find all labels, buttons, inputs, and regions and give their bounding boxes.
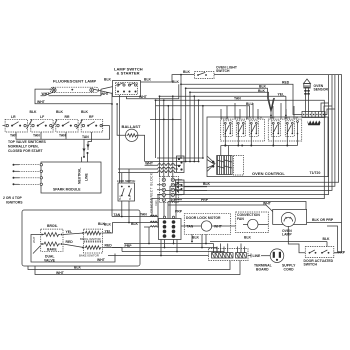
svg-text:BLK: BLK: [323, 237, 331, 241]
broil ignitor E1: [80, 229, 102, 241]
wire valve interconnects: [3, 125, 110, 127]
ignitor electrodes (4x): [13, 164, 43, 166]
svg-text:TAN: TAN: [187, 225, 194, 229]
wire WHT lamp left loop: [35, 89, 112, 104]
lamp switch and starter S1: [113, 67, 143, 97]
svg-text:YEL: YEL: [278, 93, 285, 97]
wire terminal board pin risers: [214, 244, 245, 253]
svg-text:WHT: WHT: [42, 92, 51, 96]
terminal board TB2: [209, 249, 272, 272]
relay bank K1: [221, 116, 265, 141]
caption 2 or 4 top ignitors: [3, 196, 23, 204]
svg-text:BLK: BLK: [244, 236, 252, 240]
top valve switches: LR LF RR RF: [11, 110, 94, 119]
wire WHT above lamp: [168, 202, 306, 210]
wire starter bottom drop: [127, 84, 179, 99]
wire bus y92: [190, 92, 269, 98]
wire ballast right: [138, 135, 145, 161]
wire relay bottoms to rail: [225, 134, 297, 146]
oven light switch S2: [183, 66, 238, 79]
wire lower 2: [112, 248, 217, 253]
wire hops crossing: [118, 161, 181, 172]
relay bank K2: [268, 116, 301, 141]
svg-text:BLK: BLK: [56, 110, 64, 114]
svg-text:WHT: WHT: [139, 95, 148, 99]
svg-text:WHT: WHT: [37, 100, 46, 104]
svg-text:BR: BR: [295, 117, 299, 119]
svg-text:LR: LR: [11, 115, 16, 119]
svg-text:RR: RR: [65, 115, 70, 119]
svg-text:BROIL: BROIL: [47, 224, 58, 228]
dual valve V1: [41, 229, 63, 252]
sensor connector P3: [302, 112, 325, 126]
wire BLK control to left: [184, 186, 207, 188]
wire bus RED y84 to sensor: [181, 84, 302, 114]
wire bake wht: [31, 254, 115, 263]
wire bus TAN y100: [152, 100, 324, 216]
svg-text:CORD: CORD: [284, 268, 295, 272]
wire ballast left: [117, 104, 125, 135]
valve switch LF: [31, 119, 53, 137]
fluorescent lamp FL1: [50, 79, 99, 93]
wire BLK starter to oven light switch: [141, 75, 195, 82]
svg-text:IGNITORS: IGNITORS: [6, 200, 23, 204]
svg-text:SWITCH: SWITCH: [304, 263, 318, 267]
svg-text:SPARK MODULE: SPARK MODULE: [53, 187, 81, 191]
svg-text:PRP: PRP: [175, 209, 183, 213]
wire control funnel to strips: [207, 156, 215, 172]
svg-text:T1/T20: T1/T20: [310, 171, 321, 175]
svg-text:WHT: WHT: [145, 161, 154, 165]
connector P6: [177, 156, 185, 173]
svg-text:BLK OR PRP: BLK OR PRP: [312, 218, 334, 222]
svg-text:BLK: BLK: [74, 266, 82, 270]
node dots lamp feeds: [111, 103, 113, 105]
supply cord P1: [248, 249, 296, 272]
wire lower 4: [108, 255, 209, 257]
wire sensor connector feeds: [321, 103, 329, 112]
nested right border wires: [158, 75, 329, 227]
svg-text:PRP: PRP: [201, 198, 209, 202]
svg-text:BLK: BLK: [172, 80, 180, 84]
wire oven light drop: [180, 75, 182, 85]
svg-text:BAKE: BAKE: [47, 248, 57, 252]
svg-text:SENSOR: SENSOR: [314, 88, 329, 92]
oven control U2: [207, 117, 328, 177]
svg-text:BAKE: BAKE: [284, 116, 291, 119]
door lock connector P5: [159, 216, 182, 239]
svg-text:DOOR LOCK MOTOR: DOOR LOCK MOTOR: [186, 216, 221, 220]
svg-text:WHT: WHT: [97, 258, 106, 262]
svg-text:BLK: BLK: [259, 84, 267, 88]
valve switch RF: [81, 119, 103, 139]
svg-text:RF: RF: [89, 115, 94, 119]
wire PRP lower: [124, 243, 214, 245]
svg-text:TAN: TAN: [235, 116, 240, 119]
svg-text:BLU: BLU: [119, 195, 122, 200]
oven sensor RT1: [304, 79, 329, 97]
svg-text:BOARD: BOARD: [256, 268, 269, 272]
valve switch RR: [56, 119, 78, 137]
svg-text:BLK: BLK: [129, 195, 132, 200]
svg-text:SWITCH: SWITCH: [216, 69, 230, 73]
ballast B1: [122, 124, 142, 141]
svg-text:TAN: TAN: [140, 213, 147, 217]
svg-text:WHT: WHT: [32, 236, 36, 243]
center vertical bundle: [185, 88, 187, 161]
connector P10: [176, 180, 185, 195]
svg-text:DOOR: DOOR: [222, 117, 229, 119]
spark module U1: [41, 162, 101, 193]
svg-text:NEUTRAL: NEUTRAL: [78, 168, 82, 184]
svg-text:LAMP: LAMP: [282, 232, 292, 236]
wire sensor leads: [306, 97, 309, 112]
wire lock switch drops: [112, 201, 159, 217]
svg-text:LINE: LINE: [253, 254, 262, 258]
svg-text:BLK: BLK: [131, 222, 139, 226]
svg-text:BROIL IGNITOR: BROIL IGNITOR: [80, 237, 101, 241]
svg-text:BLK: BLK: [203, 182, 211, 186]
wire spark module feeds: [82, 152, 88, 162]
bake ignitor E2: [79, 242, 102, 257]
svg-text:TAN: TAN: [33, 134, 40, 138]
door lock motor M1: [181, 214, 236, 235]
svg-text:BALLAST: BALLAST: [122, 124, 142, 129]
svg-text:FAN: FAN: [154, 200, 158, 205]
splice squiggles at connector P5: [150, 215, 157, 227]
svg-text:BAKE IGNITOR: BAKE IGNITOR: [79, 253, 99, 257]
svg-text:BLK: BLK: [183, 70, 191, 74]
svg-text:BLK: BLK: [258, 89, 266, 93]
wire lower 3: [122, 252, 224, 253]
svg-text:BLK: BLK: [104, 223, 112, 227]
svg-text:LINE: LINE: [85, 172, 89, 181]
wire drops into control top: [221, 103, 258, 119]
svg-text:BLK: BLK: [98, 222, 106, 226]
wire WHT bottom run: [35, 261, 240, 275]
svg-text:& STARTER: & STARTER: [117, 70, 140, 75]
oven lamp DS1: [273, 209, 307, 236]
svg-text:BLK: BLK: [30, 110, 38, 114]
svg-text:LOCK SWITCH: LOCK SWITCH: [117, 179, 135, 183]
wire lamp return drops: [111, 93, 113, 217]
wire bus YEL y96 to funnel: [194, 95, 286, 97]
svg-text:WHT: WHT: [101, 92, 110, 96]
convection fan M2: [236, 212, 269, 233]
door actuated switch S4: [304, 247, 334, 267]
svg-text:WHT: WHT: [56, 271, 65, 275]
wire grid drops to lower bus: [165, 240, 174, 248]
svg-text:FLUORESCENT LAMP: FLUORESCENT LAMP: [53, 79, 97, 84]
svg-text:TAN: TAN: [82, 135, 89, 139]
splice funnels: [268, 96, 287, 119]
svg-text:TAN: TAN: [114, 213, 121, 217]
svg-text:FAN: FAN: [237, 217, 244, 221]
wire BLK OR PRP: [307, 222, 342, 224]
svg-text:BLK: BLK: [104, 77, 112, 81]
svg-text:BLK: BLK: [144, 77, 152, 81]
svg-text:TAN: TAN: [234, 96, 241, 100]
svg-text:TOP VALVE SWITCHES: TOP VALVE SWITCHES: [8, 140, 47, 144]
svg-text:BLK: BLK: [192, 236, 200, 240]
wire door switch connections: [326, 242, 328, 247]
svg-text:WHT: WHT: [214, 225, 223, 229]
wire valves to spark module: [16, 132, 84, 157]
wire bundle left feeders: [155, 100, 157, 158]
svg-text:NORMALLY OPEN,: NORMALLY OPEN,: [8, 144, 39, 148]
wire lamp right to starter: [94, 89, 113, 93]
caption top valve switches: [8, 140, 47, 153]
svg-text:RED: RED: [66, 240, 74, 244]
transformer T1 hatched strips: [217, 146, 244, 176]
wire BLK top bus to right border: [214, 75, 342, 223]
svg-text:CON: CON: [257, 117, 262, 119]
wire BLK bottom run: [28, 261, 230, 270]
wire bundle collectors: [157, 157, 203, 159]
svg-text:DISCONNECT BLOCK: DISCONNECT BLOCK: [150, 172, 154, 212]
svg-text:LF: LF: [40, 115, 44, 119]
svg-text:OVEN CONTROL: OVEN CONTROL: [252, 171, 285, 176]
wire ignitors right: [102, 223, 122, 252]
svg-text:WHT: WHT: [263, 202, 272, 206]
svg-text:CLOSED FOR START: CLOSED FOR START: [8, 149, 43, 153]
svg-text:BLK: BLK: [81, 110, 89, 114]
svg-text:BLU: BLU: [246, 102, 254, 106]
wire bus BLU y106: [203, 106, 250, 117]
svg-text:RED: RED: [105, 243, 113, 247]
svg-text:FAN: FAN: [270, 116, 275, 119]
wire bus BLK y88 to funnel: [186, 88, 268, 98]
svg-text:PRP: PRP: [338, 250, 346, 254]
svg-text:LOW: LOW: [246, 117, 252, 119]
svg-text:TAN: TAN: [59, 134, 66, 138]
lower oven assembly box: [22, 210, 140, 266]
svg-text:RED: RED: [282, 80, 290, 84]
disconnect block TB1: [150, 172, 183, 212]
valve switch LR: [5, 119, 27, 137]
wire dual valve left: [31, 235, 41, 257]
lock switch S3: [117, 169, 135, 201]
